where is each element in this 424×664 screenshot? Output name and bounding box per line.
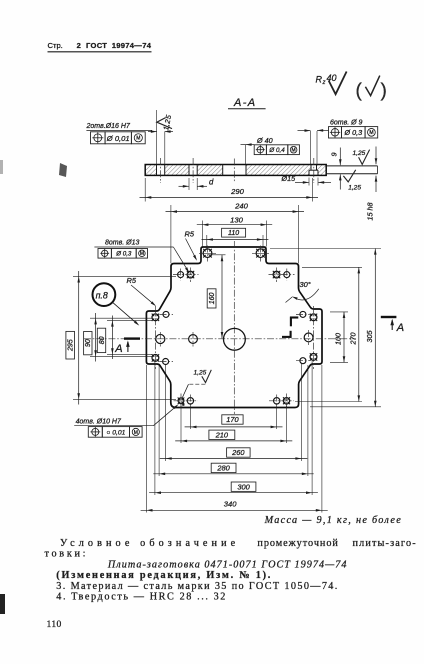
svg-text:○ 0,01: ○ 0,01	[106, 430, 125, 437]
section outline	[145, 165, 326, 176]
svg-text:19974—74: 19974—74	[112, 41, 152, 50]
tab hole column centerlines	[154, 306, 156, 369]
svg-text:295: 295	[68, 339, 75, 352]
svg-text:Плита-заготовка 0471-0071 ГОСТ: Плита-заготовка 0471-0071 ГОСТ 19974—74	[107, 559, 348, 570]
top edge countersunk holes	[203, 249, 212, 258]
section centerlines	[160, 158, 162, 183]
dim 110 top (boxed)	[206, 235, 208, 250]
thin tab tongue at right of section	[326, 165, 377, 167]
svg-text:промежуточной: промежуточной	[257, 538, 338, 549]
svg-text:100: 100	[334, 333, 343, 345]
dim 90 left (boxed)	[90, 317, 152, 319]
svg-text:290: 290	[230, 187, 244, 196]
svg-text:R5: R5	[127, 276, 137, 285]
svg-text:260: 260	[231, 448, 245, 457]
roughness 1,25 over left hole	[157, 118, 172, 129]
dim 300	[149, 492, 318, 494]
dim 100 right	[330, 311, 348, 313]
svg-text:d: d	[209, 177, 214, 186]
svg-text:300: 300	[237, 482, 250, 491]
svg-text:R5: R5	[185, 229, 195, 238]
centerline row holes: 2x Ø16, Ø40	[156, 334, 165, 343]
upper tab holes	[152, 314, 159, 321]
dim 240	[170, 205, 172, 263]
svg-text:270: 270	[348, 333, 357, 346]
scan artifacts on edges	[59, 163, 67, 177]
svg-text:110: 110	[47, 619, 62, 630]
svg-text:M: M	[134, 430, 138, 436]
Ø9 hole with Ø15 counterbore in section	[310, 165, 312, 171]
svg-text:160: 160	[209, 292, 216, 304]
svg-text:п.8: п.8	[96, 290, 108, 300]
dim Ø15 under section	[308, 178, 310, 186]
svg-text:210: 210	[215, 430, 229, 439]
dim 290	[144, 178, 146, 202]
section plane step marks (thick)	[290, 317, 292, 327]
label п.8	[93, 283, 116, 306]
svg-text:1,25: 1,25	[194, 370, 207, 377]
svg-text:1,25: 1,25	[353, 150, 366, 157]
dim 80 left (boxed)	[107, 319, 152, 321]
svg-text:M: M	[140, 251, 144, 257]
svg-text:280: 280	[216, 464, 230, 473]
svg-text:Условное обозначение: Условное обозначение	[60, 538, 239, 549]
svg-text:плиты-заго-: плиты-заго-	[353, 538, 417, 549]
dim d under section	[188, 178, 190, 190]
svg-text:Ø15: Ø15	[281, 174, 297, 183]
svg-text:Ø 0,01: Ø 0,01	[106, 134, 130, 143]
view arrow A right	[381, 316, 397, 318]
svg-text:Ø 0,3: Ø 0,3	[115, 251, 132, 258]
plan view plate outline	[146, 247, 322, 408]
svg-text:90: 90	[85, 339, 92, 347]
svg-text:Ø 40: Ø 40	[256, 136, 273, 145]
dim 295 left (boxed)	[73, 275, 176, 277]
svg-text:товки:: товки:	[45, 549, 89, 560]
plan main centerlines	[84, 338, 356, 340]
dim 260	[160, 458, 307, 460]
lower tab holes	[152, 355, 159, 362]
svg-text:M: M	[136, 136, 140, 142]
upper row holes Ø13	[178, 272, 184, 278]
svg-text:2: 2	[77, 41, 81, 50]
svg-text:Масса — 9,1 кг, не более: Масса — 9,1 кг, не более	[264, 515, 402, 526]
dim 160 (boxed, vertical)	[208, 254, 226, 256]
dim 340	[141, 509, 328, 511]
svg-text:1,25: 1,25	[348, 184, 361, 191]
bottom row holes	[178, 398, 184, 404]
svg-text:9: 9	[330, 153, 339, 157]
dim 210	[175, 440, 292, 442]
svg-text:130: 130	[230, 216, 243, 225]
svg-text:3. Материал — сталь марки 35 п: 3. Материал — сталь марки 35 по ГОСТ 105…	[56, 581, 338, 592]
svg-text:А-А: А-А	[233, 97, 257, 109]
svg-text:15 h8: 15 h8	[366, 203, 375, 221]
svg-text:305: 305	[365, 330, 374, 343]
svg-text:40: 40	[327, 73, 337, 83]
svg-text:240: 240	[234, 202, 248, 211]
svg-text:Ø 0,4: Ø 0,4	[268, 147, 285, 154]
svg-text:Ø 0,3: Ø 0,3	[343, 128, 362, 137]
svg-text:): )	[381, 81, 387, 102]
svg-text:А: А	[396, 322, 404, 334]
dim 305 right	[270, 248, 381, 250]
svg-text:4. Твердость — HRC 28 ... 32: 4. Твердость — HRC 28 ... 32	[56, 592, 227, 603]
svg-text:А: А	[114, 343, 122, 355]
view arrow A left	[124, 337, 140, 339]
dim 15 h8 thickness	[375, 147, 377, 165]
dim 170	[185, 426, 283, 428]
svg-text:170: 170	[226, 415, 239, 424]
svg-text:ГОСТ: ГОСТ	[86, 41, 107, 50]
dim 130 top	[201, 221, 203, 247]
section A-A hatched body	[145, 165, 326, 176]
svg-text:M: M	[369, 130, 373, 136]
svg-text:Стр.: Стр.	[48, 41, 63, 50]
svg-text:8отв. Ø13: 8отв. Ø13	[105, 240, 139, 247]
svg-text:R: R	[316, 75, 323, 85]
dim 280	[153, 473, 313, 475]
svg-text:30°: 30°	[300, 280, 311, 289]
dim 270 right	[302, 266, 362, 268]
svg-text:4отв. Ø10 Н7: 4отв. Ø10 Н7	[76, 419, 122, 426]
svg-text:M: M	[292, 148, 296, 154]
svg-text:340: 340	[224, 500, 237, 509]
dim 9 tab thickness	[339, 148, 341, 166]
extension lines below plate	[145, 365, 147, 513]
svg-text:(: (	[356, 81, 363, 102]
svg-text:110: 110	[228, 230, 239, 237]
svg-text:(Измененная редакция, Изм. № 1: (Измененная редакция, Изм. № 1).	[56, 570, 272, 581]
svg-text:z: z	[322, 80, 326, 86]
svg-text:80: 80	[99, 336, 106, 344]
svg-text:6отв. Ø 9: 6отв. Ø 9	[330, 120, 363, 127]
svg-text:2отв.Ø16 Н7: 2отв.Ø16 Н7	[86, 123, 131, 130]
